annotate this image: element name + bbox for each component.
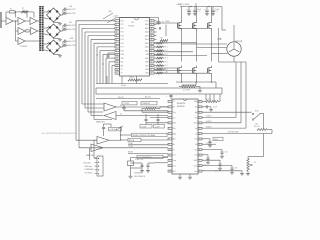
capacitor C14	[202, 159, 220, 161]
pin 4 IC U4 left	[168, 117, 172, 119]
wire IC U3 right pin	[154, 27, 157, 29]
resistor R9	[145, 108, 156, 110]
wire phase node 1	[181, 30, 183, 62]
wire U6 right	[102, 147, 104, 149]
svg-text:HLBD3: HLBD3	[206, 126, 212, 128]
label box SPEED CONTROL VOLTAGE	[121, 134, 132, 136]
pin 11 IC U3 left	[115, 57, 120, 59]
pin 13 IC U3 left	[115, 64, 120, 66]
wire IC U3 left pin net	[82, 27, 115, 29]
pin 26 IC U3 right	[150, 72, 155, 74]
wire IC U3 right pin	[154, 50, 157, 52]
wire row 14	[202, 170, 242, 172]
op-amp U2B	[18, 38, 25, 45]
resistor pull-up row 8	[157, 50, 163, 52]
pin 19 IC U4 right	[198, 149, 202, 151]
svg-text:16: 16	[199, 165, 201, 167]
svg-text:MAX233: MAX233	[86, 154, 95, 157]
wire IC U3 left pin net	[76, 20, 115, 22]
svg-text:C7-CB: C7-CB	[124, 103, 130, 105]
wire gate Q6	[154, 72, 208, 74]
svg-text:30: 30	[151, 58, 153, 60]
wire bridge out	[61, 14, 64, 16]
diode bridge BR2	[47, 24, 61, 38]
wire IC U3 right pin	[154, 31, 157, 33]
svg-text:AD4: AD4	[145, 38, 148, 41]
label net row 3	[109, 139, 121, 141]
pin 9 IC U4 left	[168, 143, 172, 145]
svg-text:47u 25V: 47u 25V	[69, 25, 76, 27]
wire cap out	[66, 24, 69, 26]
svg-text:RESONATOR: RESONATOR	[134, 175, 146, 178]
svg-text:C11 0.1: C11 0.1	[206, 142, 212, 144]
wire U5 outputs	[116, 106, 168, 108]
svg-text:12: 12	[116, 62, 118, 64]
wire cap out	[66, 8, 69, 10]
svg-text:38: 38	[151, 28, 153, 30]
wire IC U3 right pin	[154, 38, 157, 40]
svg-text:P11: P11	[121, 24, 124, 26]
IC U3 87C51 microcontroller body	[120, 18, 150, 77]
svg-text:32: 32	[151, 50, 153, 52]
pin 7 IC U4 left	[168, 133, 172, 135]
wire phase node 3	[211, 30, 213, 62]
wire IC U3 right pin	[154, 65, 157, 67]
resistor pull-up row 13	[157, 68, 163, 70]
wire	[37, 20, 40, 22]
svg-text:5k: 5k	[254, 162, 256, 164]
svg-text:3: 3	[116, 28, 117, 30]
capacitor C4	[63, 28, 65, 31]
resistor R8 4x4.7k	[202, 101, 206, 103]
svg-text:12: 12	[169, 160, 171, 162]
pin 1 IC U4 left	[168, 101, 172, 103]
svg-text:8: 8	[169, 139, 170, 141]
svg-text:7: 7	[116, 43, 117, 45]
wire IC U3 left pin net	[106, 57, 115, 59]
wire IC U3 left pin net	[91, 38, 115, 40]
wire IC U3 left pin net	[112, 65, 115, 67]
wire switch to Rs	[261, 112, 264, 114]
svg-text:26: 26	[199, 112, 201, 114]
svg-text:AD5: AD5	[145, 42, 148, 45]
pin 27 IC U3 right	[150, 68, 155, 70]
wire right edge down	[263, 134, 265, 157]
svg-text:0.1: 0.1	[215, 11, 217, 13]
svg-text:29: 29	[151, 62, 153, 64]
svg-text:33: 33	[151, 47, 153, 49]
capacitor C3	[63, 24, 65, 27]
wire phase A to motor	[182, 43, 227, 45]
svg-text:Ha: Ha	[195, 107, 197, 109]
wire IC U4 bottom grounds	[179, 174, 181, 177]
pin 3 IC U4 left	[168, 111, 172, 113]
wire xtal	[131, 157, 169, 159]
svg-text:Cmp: Cmp	[193, 165, 197, 167]
wire	[38, 30, 40, 32]
wire IC U3 left pin net	[97, 46, 115, 48]
capacitor C22	[157, 114, 159, 119]
op-amp U5B RS-485 receiver	[104, 112, 116, 120]
wire bus	[93, 43, 95, 119]
wire row 9	[202, 143, 216, 145]
svg-text:Spd: Spd	[173, 133, 176, 135]
pin 34 IC U3 right	[150, 42, 155, 44]
pin 25 IC U4 right	[198, 117, 202, 119]
svg-text:4x 4.7k: 4x 4.7k	[206, 99, 212, 101]
label box C10 1uF	[109, 127, 122, 131]
pin 26 IC U4 right	[198, 111, 202, 113]
wire P3 column	[165, 25, 167, 37]
svg-text:10u 25V: 10u 25V	[69, 45, 76, 47]
wire +5 to xtal	[117, 17, 159, 19]
svg-text:PWM2: PWM2	[161, 41, 166, 43]
pin 6 IC U3 left	[115, 38, 120, 40]
wire IC U3 right pin	[154, 35, 157, 37]
ground	[58, 54, 62, 56]
label box C7-CB	[122, 101, 137, 105]
svg-text:P10: P10	[121, 21, 124, 23]
svg-text:P1.1: P1.1	[165, 47, 168, 49]
wire IC U3 right pin	[154, 53, 157, 55]
svg-text:3: 3	[169, 112, 170, 114]
pin 31 IC U3 right	[150, 53, 155, 55]
wire motor bottom	[233, 56, 235, 62]
wire phase node 2	[196, 30, 198, 62]
pin 36 IC U3 right	[150, 35, 155, 37]
pin 27 IC U4 right	[198, 106, 202, 108]
resistor R10 pullup	[160, 40, 168, 42]
svg-text:AD0: AD0	[145, 23, 148, 26]
svg-text:4: 4	[116, 32, 117, 34]
svg-text:Gd2: Gd2	[194, 160, 197, 162]
wire row link	[15, 21, 17, 41]
svg-text:35: 35	[151, 39, 153, 41]
capacitor C6	[63, 44, 65, 47]
pin 8 IC U4 left	[168, 138, 172, 140]
svg-text:Iso: Iso	[173, 117, 175, 119]
svg-text:AD-CB: AD-CB	[145, 96, 151, 99]
pin 28 IC U3 right	[150, 64, 155, 66]
capacitor C21	[145, 114, 147, 119]
svg-text:IN1: IN1	[121, 65, 124, 67]
label box 0.1uF	[140, 125, 152, 129]
svg-text:27: 27	[151, 69, 153, 71]
svg-text:XTAL 3.58: XTAL 3.58	[135, 158, 143, 161]
svg-text:14: 14	[116, 69, 118, 71]
capacitor bulk pair	[206, 7, 208, 10]
svg-text:Vco: Vco	[173, 112, 176, 114]
wire bus	[78, 25, 80, 148]
svg-text:37: 37	[151, 32, 153, 34]
svg-text:HLBD2: HLBD2	[206, 121, 212, 123]
svg-text:Cs: Cs	[195, 133, 197, 135]
switch S1 RUN/CAL	[202, 111, 252, 113]
resistor R1 feedback	[10, 11, 16, 13]
capacitor C7	[159, 27, 161, 29]
svg-text:Rx: Rx	[173, 144, 175, 146]
wire source Q4	[181, 75, 183, 82]
pin 2 IC U4 left	[168, 106, 172, 108]
svg-text:R1: R1	[10, 9, 12, 11]
svg-text:AD3: AD3	[145, 34, 148, 37]
label +12V arrow	[107, 17, 117, 23]
svg-text:1uF: 1uF	[235, 167, 238, 169]
svg-text:AD1: AD1	[145, 27, 148, 30]
wire input signal left edge	[0, 12, 2, 28]
svg-text:P16: P16	[121, 43, 124, 45]
pin 15 IC U3 left	[115, 72, 120, 74]
pin 3 IC U3 left	[115, 27, 120, 29]
resistor Rs 0.05	[257, 129, 267, 131]
wire collector bus	[96, 83, 168, 85]
wire	[25, 40, 40, 42]
op-amp U2A	[31, 28, 38, 35]
svg-text:2: 2	[169, 107, 170, 109]
svg-text:Rs 0.05: Rs 0.05	[254, 126, 260, 128]
wire phase C to motor	[212, 53, 228, 55]
svg-text:P12: P12	[121, 28, 124, 30]
pin 1 IC U3 left	[115, 20, 120, 22]
svg-text:CERAMIC: CERAMIC	[134, 172, 143, 175]
pin 8 IC U3 left	[115, 46, 120, 48]
svg-text:47u 25V: 47u 25V	[69, 41, 76, 43]
svg-text:13: 13	[169, 165, 171, 167]
transformer T1	[39, 6, 41, 51]
wire low-side common	[176, 81, 216, 83]
svg-text:TO HOST: TO HOST	[85, 172, 94, 174]
svg-text:Css: Css	[194, 171, 197, 173]
svg-text:Isn: Isn	[195, 149, 197, 151]
resistor R7 0.05 5W sense	[182, 85, 196, 87]
label box 2.2uF	[154, 125, 165, 129]
svg-text:40: 40	[151, 21, 153, 23]
svg-text:15: 15	[199, 171, 201, 173]
svg-text:17: 17	[199, 160, 201, 162]
transistor Q6 low-side FET	[207, 68, 209, 73]
resistor pull-up row 6	[157, 42, 163, 44]
svg-text:31: 31	[151, 54, 153, 56]
svg-text:IN0: IN0	[121, 62, 124, 64]
gate feedback box	[96, 88, 222, 94]
resistor OSC under IC	[128, 79, 142, 81]
svg-text:+12V: +12V	[69, 38, 74, 40]
capacitor C20	[202, 165, 232, 167]
svg-text:A15: A15	[145, 64, 148, 67]
pin 37 IC U3 right	[150, 31, 155, 33]
pin 23 IC U4 right	[198, 127, 202, 129]
wire bus	[87, 36, 89, 112]
pin 6 IC U4 left	[168, 127, 172, 129]
svg-text:36: 36	[151, 35, 153, 37]
label box PWM-CB	[141, 101, 157, 105]
svg-text:0.1uF: 0.1uF	[213, 107, 217, 109]
svg-text:27: 27	[199, 107, 201, 109]
wire bridge in	[44, 43, 47, 45]
pin 32 IC U3 right	[150, 50, 155, 52]
svg-text:10u 25V: 10u 25V	[69, 13, 76, 15]
pin 15 IC U4 right	[198, 170, 202, 172]
svg-text:PWM-CB: PWM-CB	[143, 103, 151, 105]
svg-text:P1.6: P1.6	[165, 65, 168, 67]
wire bus	[84, 32, 86, 108]
svg-text:+VBAT (+12V): +VBAT (+12V)	[176, 3, 190, 6]
pin 16 IC U4 right	[198, 165, 202, 167]
wire cap out	[66, 40, 69, 42]
svg-text:21: 21	[199, 139, 201, 141]
op-amp U1C	[30, 18, 37, 25]
wire xtal pins	[154, 162, 168, 164]
wire gate Q3	[193, 28, 208, 30]
motor M1	[227, 42, 241, 56]
pin 24 IC U4 right	[198, 122, 202, 124]
wire motor supply	[233, 25, 235, 42]
svg-text:Hc: Hc	[195, 117, 197, 119]
svg-text:10: 10	[169, 149, 171, 151]
svg-text:6: 6	[169, 128, 170, 130]
svg-text:G5: G5	[164, 69, 166, 71]
wire	[13, 20, 18, 22]
pin 29 IC U3 right	[150, 61, 155, 63]
svg-text:18: 18	[199, 155, 201, 157]
svg-text:RT-CB: RT-CB	[129, 140, 135, 142]
pin 17 IC U4 right	[198, 159, 202, 161]
svg-text:9: 9	[169, 144, 170, 146]
wire IC U3 right pin	[154, 46, 157, 48]
transistor Q3 high-side FET	[211, 7, 213, 22]
diode bridge BR3	[47, 40, 61, 54]
pin 13 IC U4 left	[168, 165, 172, 167]
label box PWM INPUT	[137, 155, 163, 158]
svg-text:Brk: Brk	[173, 138, 176, 141]
wire PWM2	[154, 42, 197, 44]
wire IC U3 left pin net	[100, 50, 115, 52]
svg-text:34: 34	[151, 43, 153, 45]
capacitor C15 bypass	[170, 93, 172, 96]
wire IC U4 bottom grounds2	[241, 171, 243, 174]
svg-text:Vdd: Vdd	[194, 101, 197, 103]
svg-text:26: 26	[151, 73, 153, 75]
svg-text:14: 14	[169, 171, 171, 173]
pin 12 IC U4 left	[168, 159, 172, 161]
resistor R3	[26, 30, 29, 32]
resistor pull-up row 14	[157, 72, 163, 74]
svg-text:AD2: AD2	[145, 31, 148, 34]
capacitor C19	[147, 163, 149, 165]
op-amp U1A	[6, 18, 13, 25]
svg-text:7: 7	[169, 133, 170, 135]
svg-text:5: 5	[116, 35, 117, 37]
wire bus	[75, 21, 77, 140]
svg-text:Ct2: Ct2	[194, 138, 197, 141]
svg-text:22: 22	[199, 133, 201, 135]
svg-text:A13: A13	[145, 72, 148, 75]
svg-text:RT: RT	[173, 107, 175, 109]
ground	[58, 22, 62, 24]
svg-text:Fbk: Fbk	[173, 123, 176, 125]
wire phase B to motor	[197, 47, 227, 49]
wire IC U4 left row extras	[150, 117, 168, 119]
transistor Q4 low-side FET	[177, 68, 179, 73]
svg-text:9600 bps: 9600 bps	[85, 166, 92, 168]
capacitor C12	[202, 149, 222, 151]
wire hall sense 3	[245, 62, 247, 128]
transistor Q2 high-side FET	[196, 7, 198, 22]
svg-text:10u 25V: 10u 25V	[69, 29, 76, 31]
op-amp U5A RS-485 driver	[104, 103, 116, 111]
capacitor bulk pair	[188, 7, 190, 10]
wire gate Q2	[178, 28, 193, 30]
pin 20 IC U4 right	[198, 143, 202, 145]
wire IC U3 right pin	[154, 68, 157, 70]
svg-text:4: 4	[169, 117, 170, 119]
svg-text:AD7: AD7	[145, 49, 148, 52]
capacitor C18	[131, 167, 143, 169]
node junction	[96, 54, 97, 55]
svg-text:28: 28	[199, 101, 201, 103]
capacitor C11	[202, 138, 210, 140]
pin 14 IC U3 left	[115, 68, 120, 70]
wire hall sense 1	[235, 62, 237, 118]
svg-text:10: 10	[116, 54, 118, 56]
ground sense	[199, 87, 201, 91]
pin 12 IC U3 left	[115, 61, 120, 63]
wire IC U3 right pin	[154, 20, 157, 22]
potentiometer RV1	[247, 159, 249, 172]
svg-text:8 DATA BIT: 8 DATA BIT	[85, 168, 95, 171]
wire gate Q4	[154, 67, 178, 69]
svg-text:Xt2: Xt2	[173, 170, 176, 173]
pin 38 IC U3 right	[150, 27, 155, 29]
wire IC U3 right pin	[154, 57, 157, 59]
wire bridge in	[44, 27, 47, 29]
svg-text:RS-LN: RS-LN	[118, 97, 124, 99]
svg-text:47u 25V: 47u 25V	[69, 9, 76, 11]
pin 7 IC U3 left	[115, 42, 120, 44]
svg-text:6: 6	[116, 39, 117, 41]
svg-text:Xt1: Xt1	[173, 164, 176, 167]
pin 9 IC U3 left	[115, 50, 120, 52]
svg-text:0.1: 0.1	[197, 11, 199, 13]
svg-text:9: 9	[116, 50, 117, 52]
svg-text:0.05 5W: 0.05 5W	[183, 90, 190, 92]
svg-text:RST: RST	[121, 50, 124, 52]
label net row 5	[128, 153, 168, 155]
svg-text:23: 23	[199, 128, 201, 130]
wire low gate B	[154, 55, 207, 57]
pin 35 IC U3 right	[150, 38, 155, 40]
svg-text:MOTOR: MOTOR	[235, 41, 243, 43]
pin 30 IC U3 right	[150, 57, 155, 59]
svg-text:28: 28	[151, 65, 153, 67]
svg-text:ALL RESISTORS 1/4W UNLESS NOTE: ALL RESISTORS 1/4W UNLESS NOTED	[41, 132, 78, 135]
svg-text:G6: G6	[166, 71, 168, 73]
label box RT-CB	[121, 139, 128, 141]
pin 4 IC U3 left	[115, 31, 120, 33]
svg-text:2: 2	[116, 24, 117, 26]
svg-text:Osc: Osc	[173, 155, 176, 157]
svg-text:T1: T1	[121, 73, 123, 75]
wire IC U3 left pin net	[85, 31, 115, 33]
svg-text:PWM1: PWM1	[165, 21, 170, 23]
wire IC U3 right pin	[154, 61, 157, 63]
svg-text:87C51: 87C51	[129, 26, 136, 28]
svg-text:13: 13	[116, 65, 118, 67]
svg-text:AD6: AD6	[145, 46, 148, 49]
wire IC U3 left pin net	[79, 24, 115, 26]
svg-text:11: 11	[116, 58, 118, 60]
svg-text:20: 20	[199, 144, 201, 146]
